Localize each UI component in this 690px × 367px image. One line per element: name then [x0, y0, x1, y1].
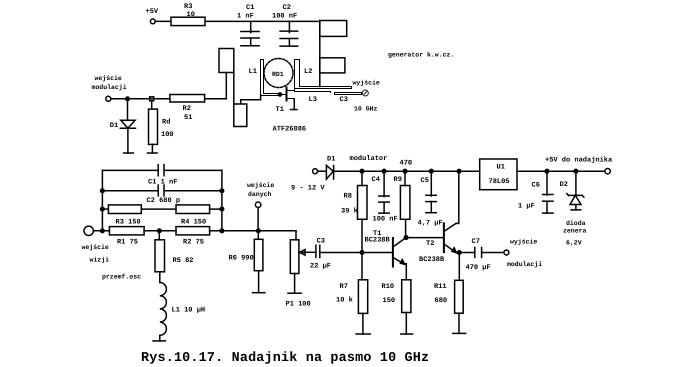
svg-text:D1: D1	[110, 122, 118, 130]
svg-text:wejście: wejście	[82, 244, 109, 251]
svg-text:D2: D2	[560, 181, 568, 189]
svg-text:1 µF: 1 µF	[518, 203, 535, 211]
svg-text:C3: C3	[340, 96, 348, 104]
svg-text:modulator: modulator	[350, 154, 388, 163]
svg-text:R2 75: R2 75	[183, 239, 204, 247]
svg-text:modulacji: modulacji	[507, 261, 542, 268]
svg-text:680: 680	[435, 297, 448, 305]
svg-text:RD1: RD1	[272, 71, 284, 78]
svg-text:Rys.10.17. Nadajnik na pasmo 1: Rys.10.17. Nadajnik na pasmo 10 GHz	[141, 351, 429, 366]
svg-text:generator k.w.cz.: generator k.w.cz.	[388, 52, 454, 59]
svg-text:modulacji: modulacji	[92, 84, 127, 91]
svg-text:R8: R8	[344, 193, 352, 201]
svg-text:R5 82: R5 82	[173, 257, 194, 265]
svg-text:L1: L1	[249, 68, 257, 76]
svg-text:1 nF: 1 nF	[237, 13, 254, 21]
svg-text:+5V do nadajnika: +5V do nadajnika	[545, 156, 613, 165]
svg-text:danych: danych	[248, 191, 272, 198]
svg-text:R11: R11	[434, 283, 447, 291]
svg-text:wizji: wizji	[90, 257, 110, 264]
svg-text:6,2V: 6,2V	[566, 240, 582, 247]
svg-text:wejście: wejście	[95, 75, 122, 82]
svg-text:4,7 µF: 4,7 µF	[418, 220, 443, 228]
svg-text:wejście: wejście	[247, 182, 274, 189]
svg-text:C3: C3	[317, 238, 325, 246]
svg-text:R3: R3	[184, 3, 192, 11]
svg-text:R9: R9	[394, 176, 402, 184]
svg-text:dioda: dioda	[566, 220, 586, 227]
svg-text:C7: C7	[472, 238, 480, 246]
svg-text:C1 1 nF: C1 1 nF	[148, 179, 177, 187]
svg-text:C6: C6	[532, 182, 540, 190]
svg-text:T1: T1	[276, 106, 284, 114]
svg-text:10 GHz: 10 GHz	[354, 106, 378, 113]
svg-text:78L05: 78L05	[489, 178, 510, 186]
svg-text:BC238B: BC238B	[419, 256, 445, 264]
svg-text:C2: C2	[283, 4, 291, 12]
svg-text:R2: R2	[183, 105, 191, 113]
svg-text:zenera: zenera	[563, 228, 587, 235]
svg-text:470: 470	[400, 160, 413, 168]
svg-text:100 nF: 100 nF	[373, 216, 398, 224]
svg-text:22 µF: 22 µF	[310, 263, 331, 271]
svg-text:C4: C4	[372, 176, 380, 184]
svg-text:100 nF: 100 nF	[272, 13, 297, 21]
svg-text:+5V: +5V	[146, 8, 159, 16]
svg-text:C2 680 p: C2 680 p	[147, 197, 181, 205]
svg-text:R1 75: R1 75	[117, 239, 138, 247]
svg-text:10: 10	[187, 11, 195, 19]
svg-text:wyjście: wyjście	[353, 80, 380, 87]
svg-text:Rd: Rd	[162, 118, 170, 127]
svg-text:100: 100	[161, 131, 174, 139]
svg-text:D1: D1	[327, 156, 335, 164]
svg-text:R6 990: R6 990	[229, 255, 254, 263]
svg-text:T2: T2	[426, 240, 434, 248]
svg-text:R10: R10	[382, 283, 395, 291]
svg-text:R3 150: R3 150	[116, 219, 141, 227]
svg-text:C1: C1	[246, 4, 254, 12]
svg-text:51: 51	[184, 114, 192, 122]
svg-text:P1 100: P1 100	[286, 301, 311, 309]
svg-text:9 - 12 V: 9 - 12 V	[291, 185, 325, 193]
svg-text:470 µF: 470 µF	[466, 264, 491, 272]
svg-text:przemf.osc: przemf.osc	[102, 274, 141, 281]
svg-text:L2: L2	[304, 68, 312, 76]
svg-text:wyjście: wyjście	[510, 239, 537, 246]
svg-text:L3: L3	[309, 96, 317, 104]
svg-text:10 k: 10 k	[336, 296, 353, 305]
svg-text:BC238B: BC238B	[365, 237, 391, 245]
svg-text:U1: U1	[497, 164, 505, 172]
svg-text:R7: R7	[340, 283, 348, 291]
svg-text:ATF26886: ATF26886	[273, 126, 307, 134]
svg-text:39 k: 39 k	[341, 207, 358, 216]
svg-text:C5: C5	[421, 177, 429, 185]
svg-text:150: 150	[383, 297, 396, 305]
svg-text:R4 150: R4 150	[181, 219, 206, 227]
svg-text:L1 10 µH: L1 10 µH	[172, 307, 206, 315]
